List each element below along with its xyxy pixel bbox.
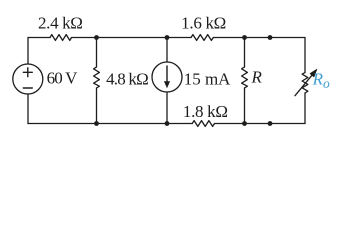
svg-text:15 mA: 15 mA bbox=[184, 69, 231, 88]
wire right upper segment bbox=[304, 38, 306, 73]
svg-text:4.8 kΩ: 4.8 kΩ bbox=[106, 70, 148, 89]
svg-text:60 V: 60 V bbox=[47, 68, 79, 87]
current source arrowhead bbox=[164, 81, 170, 88]
wire top-middle segment bbox=[72, 37, 192, 39]
resistor R zigzag bbox=[242, 67, 248, 88]
current source I1 15mA circle bbox=[152, 62, 182, 92]
wire bottom-right segment bbox=[215, 123, 306, 125]
wire top-right segment bbox=[213, 37, 305, 39]
svg-text:1.6 kΩ: 1.6 kΩ bbox=[181, 14, 226, 33]
node top at current source branch bbox=[165, 35, 170, 40]
node top at 4.8k branch bbox=[94, 35, 99, 40]
svg-text:Ro: Ro bbox=[312, 70, 330, 92]
resistor R4 4.8 kOhm zigzag bbox=[94, 67, 100, 88]
node top terminal a bbox=[268, 35, 273, 40]
voltage source V1 60V circle bbox=[13, 64, 43, 94]
voltage source plus sign bbox=[23, 68, 32, 77]
wire branch current-source upper bbox=[166, 38, 168, 63]
wire branch R lower bbox=[244, 88, 246, 124]
resistor R1 2.4 kOhm zigzag bbox=[50, 35, 72, 41]
resistor Ro zigzag (variable) bbox=[302, 73, 308, 94]
wire left lower segment bbox=[27, 94, 29, 124]
node bottom at 4.8k branch bbox=[94, 121, 99, 126]
wire left upper segment bbox=[27, 38, 29, 65]
node top at R branch bbox=[242, 35, 247, 40]
node bottom at R branch bbox=[242, 121, 247, 126]
node bottom terminal b bbox=[268, 121, 273, 126]
svg-text:R: R bbox=[251, 68, 263, 87]
wire right lower segment bbox=[304, 93, 306, 124]
wire branch current-source lower bbox=[166, 92, 168, 124]
wire top-left segment bbox=[28, 37, 50, 39]
resistor R3 1.8 kOhm zigzag bbox=[192, 121, 214, 127]
wire branch 4.8k upper bbox=[96, 38, 98, 68]
wire branch R upper bbox=[244, 38, 246, 68]
svg-text:1.8 kΩ: 1.8 kΩ bbox=[183, 102, 228, 121]
variable resistor Ro arrowhead bbox=[310, 69, 317, 76]
node bottom at current source branch bbox=[165, 121, 170, 126]
voltage source minus sign bbox=[23, 87, 32, 89]
resistor R2 1.6 kOhm zigzag bbox=[191, 35, 213, 41]
wire branch 4.8k lower bbox=[96, 88, 98, 124]
current source arrow shaft bbox=[166, 66, 168, 82]
wire bottom-left segment bbox=[28, 123, 192, 125]
svg-text:2.4 kΩ: 2.4 kΩ bbox=[38, 14, 83, 33]
variable resistor Ro arrow shaft bbox=[295, 75, 312, 96]
